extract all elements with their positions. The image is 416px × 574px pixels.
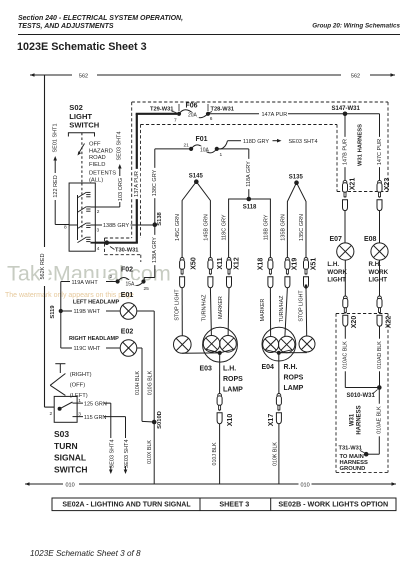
wire E03 ground [219, 353, 221, 394]
svg-text:138A GRY: 138A GRY [152, 237, 158, 263]
svg-text:WORK: WORK [327, 269, 347, 276]
wire 010H BLK [135, 348, 154, 422]
svg-text:X51: X51 [310, 258, 317, 271]
W31 harness boundary (lower dashed box) [336, 314, 388, 473]
svg-text:010AC BLK: 010AC BLK [343, 341, 349, 369]
connector X11 [208, 257, 224, 287]
svg-text:103 ORG: 103 ORG [118, 178, 124, 201]
switch S03 pin 2 [50, 411, 53, 417]
svg-text:SWITCH: SWITCH [69, 121, 99, 130]
off-page reference SE03 SHT4 (125 GRN) [109, 439, 115, 474]
svg-text:E03: E03 [200, 366, 213, 373]
wire 562 top bus [30, 73, 395, 79]
watermark large [7, 262, 171, 286]
svg-text:E01: E01 [121, 292, 134, 299]
svg-text:DETENTS: DETENTS [89, 171, 116, 177]
svg-text:S02: S02 [69, 103, 83, 112]
svg-text:(RIGHT): (RIGHT) [70, 372, 92, 378]
svg-text:118B GRY: 118B GRY [263, 214, 269, 240]
svg-text:LIGHT: LIGHT [69, 112, 92, 121]
svg-text:R.H.: R.H. [284, 364, 298, 371]
svg-text:Section 240 - ELECTRICAL SYSTE: Section 240 - ELECTRICAL SYSTEM OPERATIO… [18, 15, 183, 22]
wire 118A GRY [217, 149, 252, 199]
label 562K RED [40, 247, 49, 286]
svg-text:147C PUR: 147C PUR [377, 139, 383, 165]
wire marker (left) [218, 288, 229, 336]
wire 103 ORG [95, 172, 124, 207]
svg-text:LIGHT: LIGHT [327, 277, 346, 284]
wire 010J BLK [212, 424, 220, 485]
header rule [18, 34, 400, 36]
svg-text:E02: E02 [121, 329, 134, 336]
label 118B GRY [263, 214, 269, 240]
lamp E03 base [182, 349, 235, 355]
fuse F06 [150, 103, 234, 124]
svg-text:OFF: OFF [89, 142, 101, 148]
svg-text:SE03 SHT4: SE03 SHT4 [117, 131, 123, 160]
wire 138A GRY [144, 225, 158, 282]
wire 010X BLK [147, 422, 154, 484]
svg-text:562: 562 [351, 73, 360, 79]
svg-text:S138: S138 [157, 211, 163, 225]
svg-text:010: 010 [66, 482, 75, 488]
switch S02 contact row 3 [69, 223, 95, 228]
connector X18 [257, 258, 273, 288]
svg-text:6: 6 [210, 116, 213, 122]
svg-text:S145: S145 [189, 173, 204, 179]
svg-text:010H BLK: 010H BLK [135, 370, 141, 395]
node S138 [153, 211, 163, 227]
svg-text:STOP LIGHT: STOP LIGHT [298, 290, 304, 322]
off-page reference SE03 SHT4 (115 GRN) [124, 439, 130, 474]
switch S03 pin 3 [78, 412, 81, 418]
connector X12 [227, 257, 241, 288]
svg-text:20A: 20A [188, 113, 198, 119]
svg-text:SWITCH: SWITCH [54, 464, 88, 474]
svg-text:Group 20: Wiring Schematics: Group 20: Wiring Schematics [312, 23, 400, 30]
svg-text:TURN: TURN [54, 441, 78, 451]
wire 010 ground bus [25, 482, 396, 488]
switch S02 pin 8 [64, 225, 67, 231]
svg-text:LAMP: LAMP [223, 387, 243, 394]
switch S02 contact row 4 [78, 237, 96, 243]
svg-text:125 GRN: 125 GRN [84, 401, 107, 407]
wire 122 RED [51, 164, 69, 225]
svg-text:ROAD: ROAD [89, 155, 106, 161]
node S010D [152, 411, 163, 429]
connector X10 [217, 394, 234, 427]
svg-text:SE03 SHT4: SE03 SHT4 [289, 139, 318, 145]
watermark small [5, 292, 134, 299]
fuse F02 [110, 267, 150, 293]
svg-text:119A WHT: 119A WHT [72, 280, 99, 286]
wire marker (right) [260, 288, 271, 337]
lamp E03 stop section [174, 336, 192, 354]
svg-text:010AD BLK: 010AD BLK [377, 341, 383, 369]
svg-text:138C GRY: 138C GRY [152, 169, 158, 196]
node S145 [182, 173, 210, 257]
svg-text:S135: S135 [289, 174, 304, 180]
wire 115 GRN [77, 414, 125, 439]
switch S02 pin 4 [97, 246, 100, 252]
svg-text:T29-W31: T29-W31 [150, 107, 173, 113]
svg-text:118A GRY: 118A GRY [246, 161, 252, 187]
svg-text:1023E Schematic Sheet 3: 1023E Schematic Sheet 3 [17, 41, 147, 53]
wire 125 GRN [77, 400, 111, 438]
off-page reference SE03 SHT4 (103 ORG) [117, 131, 123, 172]
switch S02 name [69, 103, 99, 130]
wire 010AD BLK [376, 326, 383, 388]
switch S02 pin 3 [97, 228, 100, 234]
svg-text:F06: F06 [186, 103, 198, 110]
svg-text:X50: X50 [191, 257, 198, 270]
svg-text:118D GRY: 118D GRY [243, 139, 269, 145]
wire 010G BLK [137, 311, 154, 422]
svg-text:010K BLK: 010K BLK [272, 442, 278, 466]
footer sheet box [52, 498, 396, 511]
connector X19 [285, 258, 299, 288]
svg-text:TURN/HAZ: TURN/HAZ [279, 295, 285, 323]
svg-text:010J BLK: 010J BLK [212, 442, 218, 465]
label 135C GRN [299, 214, 305, 241]
wire 010K BLK [272, 424, 279, 485]
svg-text:RIGHT HEADLAMP: RIGHT HEADLAMP [69, 336, 119, 342]
svg-text:119C WHT: 119C WHT [74, 346, 101, 352]
node S010-W31 [347, 385, 382, 399]
wire 138B GRY [95, 222, 155, 229]
svg-text:2: 2 [110, 274, 113, 280]
svg-text:X23: X23 [384, 178, 391, 191]
svg-text:MARKER: MARKER [260, 298, 266, 321]
svg-text:2: 2 [97, 209, 100, 215]
svg-text:T28-W31: T28-W31 [211, 107, 234, 113]
svg-text:135B GRN: 135B GRN [280, 214, 286, 241]
svg-text:E08: E08 [364, 236, 377, 243]
node T30-W31 [105, 240, 139, 253]
wire 118D GRY to SE03 SHT4 [217, 139, 318, 149]
wire 147C PUR [376, 114, 383, 181]
wire turn/haz (left) [202, 288, 212, 336]
switch S02 selector arrow [78, 144, 85, 156]
svg-text:X20: X20 [351, 316, 358, 329]
svg-text:SE01 SHT1: SE01 SHT1 [53, 123, 59, 152]
dashed pocket around takeout T30-W31 [105, 238, 141, 262]
svg-text:GROUND: GROUND [340, 466, 366, 472]
svg-text:562K RED: 562K RED [40, 253, 46, 279]
svg-text:115 GRN: 115 GRN [84, 415, 107, 421]
svg-text:LEFT HEADLAMP: LEFT HEADLAMP [73, 300, 120, 306]
svg-text:S010D: S010D [157, 411, 163, 429]
svg-text:X17: X17 [268, 414, 275, 427]
lamp E04 stop section [299, 336, 315, 352]
connector X23 [377, 178, 391, 211]
switch S03 body [54, 396, 77, 422]
wire 147A PUR [208, 112, 380, 118]
svg-text:118C GRY: 118C GRY [222, 214, 228, 240]
svg-text:010X BLK: 010X BLK [147, 440, 153, 464]
svg-text:S010-W31: S010-W31 [347, 393, 376, 399]
header section title [18, 15, 183, 30]
connector X51 [304, 258, 318, 289]
wire 137A PUR [95, 114, 177, 243]
W31 harness boundary (outer dashed box) [132, 102, 388, 238]
svg-text:X19: X19 [291, 258, 298, 271]
svg-text:147A PUR: 147A PUR [262, 112, 288, 118]
lamp E08 [364, 210, 389, 296]
svg-text:The watermark only appears on: The watermark only appears on this page [5, 292, 134, 299]
svg-text:MARKER: MARKER [218, 296, 224, 319]
svg-text:S03: S03 [54, 429, 69, 439]
svg-text:SIGNAL: SIGNAL [54, 453, 86, 463]
label 135B GRN [280, 214, 286, 241]
wire 010AE BLK [376, 388, 383, 455]
fuse F01 [184, 136, 223, 158]
switch S02 position labels [89, 142, 116, 184]
lamp E03 turn filament [203, 336, 220, 353]
svg-text:W31 HARNESS: W31 HARNESS [358, 124, 364, 166]
svg-text:135C GRN: 135C GRN [299, 214, 305, 241]
label 118C GRY [222, 214, 228, 240]
svg-text:X18: X18 [257, 258, 264, 271]
svg-text:WORK: WORK [369, 269, 389, 276]
svg-text:8: 8 [64, 225, 67, 231]
label 145C GRN [175, 214, 181, 241]
svg-text:LAMP: LAMP [284, 385, 304, 392]
node S147-W31 [332, 106, 361, 116]
svg-text:ROPS: ROPS [223, 376, 243, 383]
svg-text:15A: 15A [126, 281, 136, 287]
svg-text:21: 21 [184, 142, 190, 148]
svg-text:T31-W31: T31-W31 [339, 446, 362, 452]
switch S03 toggle [50, 364, 91, 399]
connector X21 [343, 178, 357, 211]
svg-text:X12: X12 [233, 257, 240, 270]
svg-text:X21: X21 [350, 178, 357, 191]
lamp E02 right headlamp [61, 329, 137, 357]
svg-text:E07: E07 [330, 236, 343, 243]
svg-text:X10: X10 [227, 414, 234, 427]
lamp E04 base [266, 350, 307, 355]
label W31 HARNESS (top) [358, 124, 364, 166]
svg-text:7: 7 [174, 118, 177, 124]
svg-text:122 RED: 122 RED [53, 175, 59, 197]
svg-text:W31: W31 [350, 413, 356, 426]
svg-text:L.H.: L.H. [327, 261, 339, 268]
lamp E07 [327, 210, 354, 296]
svg-text:S119: S119 [50, 305, 56, 319]
svg-text:119B WHT: 119B WHT [74, 309, 101, 315]
svg-text:SE02A - LIGHTING AND TURN SIGN: SE02A - LIGHTING AND TURN SIGNAL [62, 501, 191, 508]
wire stop light (right) [298, 288, 306, 337]
connector X20 [343, 296, 358, 328]
svg-text:F01: F01 [196, 136, 208, 143]
lamp E03 labels [200, 366, 244, 394]
wire turn/haz (right) [279, 288, 288, 337]
lamp E04 labels [262, 364, 304, 392]
svg-text:3: 3 [97, 228, 100, 234]
switch S02 contact row 1 [78, 192, 91, 197]
connector X22 [377, 296, 392, 328]
node T31-W31 to main harness ground [339, 446, 380, 472]
svg-text:X11: X11 [217, 257, 224, 269]
svg-text:TURN/HAZ: TURN/HAZ [202, 294, 208, 322]
node S119 [50, 282, 63, 349]
switch S02 pin 2 [97, 209, 100, 215]
off-page reference SE01 SHT1 [53, 123, 59, 164]
connector X17 [268, 394, 281, 427]
svg-text:FIELD: FIELD [89, 162, 105, 168]
inner harness dashed boundary [141, 125, 338, 239]
svg-text:2: 2 [50, 411, 53, 417]
lamp E04 turn filament [279, 336, 295, 352]
svg-text:147B PUR: 147B PUR [342, 139, 348, 165]
svg-text:010G BLK: 010G BLK [148, 370, 154, 395]
svg-text:HAZARD: HAZARD [89, 148, 113, 154]
svg-text:L.H.: L.H. [223, 366, 236, 373]
switch S02 detent bracket [68, 133, 94, 183]
footer caption [30, 549, 141, 558]
connector X50 [180, 257, 198, 288]
switch S02 body [69, 183, 95, 251]
svg-text:S147-W31: S147-W31 [332, 106, 361, 112]
svg-text:ROPS: ROPS [284, 375, 304, 382]
svg-text:SHEET 3: SHEET 3 [219, 499, 249, 508]
lamp E04 body [262, 327, 296, 361]
svg-text:SE03 SHT4: SE03 SHT4 [109, 439, 115, 468]
lamp E04 marker filament [263, 337, 279, 353]
lamp E01 left headlamp [61, 292, 137, 319]
page title [17, 41, 147, 53]
node S118 [229, 197, 271, 258]
switch S03 name [54, 429, 88, 474]
svg-text:S118: S118 [243, 205, 257, 211]
svg-text:25: 25 [144, 286, 150, 292]
switch S03 pin 1 [78, 398, 81, 404]
svg-text:137A PUR: 137A PUR [134, 171, 140, 197]
svg-text:10A: 10A [200, 148, 210, 154]
svg-text:SE02B - WORK LIGHTS OPTION: SE02B - WORK LIGHTS OPTION [278, 499, 388, 508]
node S135 [287, 174, 306, 257]
svg-text:138B GRY: 138B GRY [103, 223, 130, 229]
svg-text:145C GRN: 145C GRN [175, 214, 181, 241]
svg-text:4: 4 [97, 246, 100, 252]
svg-text:010: 010 [301, 482, 310, 488]
label 137A PUR [133, 169, 140, 199]
wire E04 ground [278, 353, 280, 394]
header group title [312, 23, 400, 30]
svg-text:F02: F02 [121, 267, 133, 274]
svg-text:(OFF): (OFF) [70, 383, 86, 389]
switch S02 contact row 2 [78, 207, 96, 212]
label 145B GRN [203, 214, 209, 241]
wire 562K RED main feed [45, 75, 55, 407]
wire 119A WHT [61, 278, 116, 286]
lamp E03 body [203, 327, 238, 362]
svg-text:T30-W31: T30-W31 [115, 248, 138, 254]
wire 138C GRY [151, 149, 191, 225]
svg-text:1023E Schematic Sheet 3 of 8: 1023E Schematic Sheet 3 of 8 [30, 549, 141, 558]
svg-text:SE03 SHT4: SE03 SHT4 [124, 439, 130, 468]
wire 147B PUR [342, 114, 349, 181]
svg-text:562: 562 [79, 73, 88, 79]
lamp E03 marker filament [220, 336, 237, 353]
svg-text:145B GRN: 145B GRN [203, 214, 209, 241]
svg-text:STOP LIGHT: STOP LIGHT [174, 289, 180, 321]
svg-text:1: 1 [220, 152, 223, 158]
svg-text:HARNESS: HARNESS [357, 405, 363, 434]
svg-text:010AE BLK: 010AE BLK [377, 406, 383, 434]
label W31 HARNESS (lower) [350, 405, 363, 434]
svg-text:E04: E04 [262, 364, 275, 371]
wire 010AC BLK [342, 326, 379, 388]
svg-text:(LEFT): (LEFT) [70, 393, 88, 399]
svg-text:TESTS, AND ADJUSTMENTS: TESTS, AND ADJUSTMENTS [18, 23, 114, 30]
svg-text:X22: X22 [385, 316, 392, 329]
wire stop light (left) [174, 288, 182, 336]
svg-text:LIGHT: LIGHT [369, 277, 388, 284]
